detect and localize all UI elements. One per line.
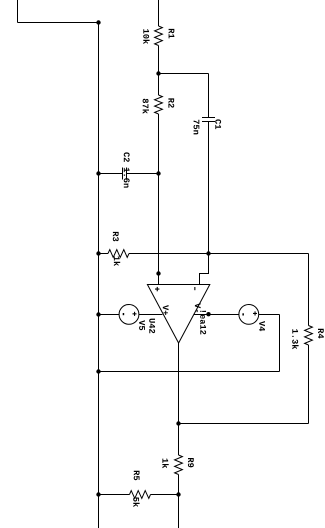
wire feedback horizontal — [179, 423, 309, 425]
label opamp model !ea12 — [200, 311, 206, 335]
node R1/R2/C1 junction — [156, 71, 160, 75]
wire input stub vertical — [17, 0, 19, 23]
label C2 value 1.6n — [124, 168, 130, 188]
resistor R9 — [175, 455, 183, 475]
resistor R5 — [130, 491, 151, 499]
source V5 circle — [119, 305, 139, 325]
node left-bus top junction — [96, 20, 100, 24]
label V5 name — [139, 320, 145, 330]
node R9/R5 junction — [176, 492, 180, 496]
source V5 minus mark — [123, 313, 125, 315]
resistor R1 — [155, 26, 163, 46]
source V4 circle — [239, 305, 259, 325]
wire V5 left lead — [99, 314, 120, 316]
label R4 name — [318, 329, 324, 339]
label C1 value 75n — [194, 120, 200, 135]
op-amp minus input mark — [194, 287, 195, 290]
label R1 value 10k — [143, 29, 149, 44]
label R5 value 5k — [133, 497, 139, 507]
wire C1 branch horizontal — [159, 73, 209, 75]
node minus-net junction — [206, 312, 210, 316]
wire R9 bottom lead — [178, 475, 180, 528]
source V4 plus mark — [253, 311, 257, 315]
label R4 value 1.3k — [292, 329, 298, 349]
capacitor C2 — [123, 168, 127, 180]
wire V4 drop vertical — [279, 315, 281, 372]
label C2 name — [124, 152, 130, 162]
label R2 name — [168, 98, 174, 107]
label R2 value 87k — [143, 99, 149, 114]
wire R5 right lead — [151, 494, 179, 496]
node return left junction — [96, 369, 100, 373]
resistor R2 — [155, 95, 163, 114]
source V5 plus mark — [133, 312, 137, 316]
label R3 value 1k — [114, 256, 120, 266]
wire R4 bottom lead — [308, 345, 310, 424]
node C2 right junction — [156, 171, 160, 175]
wire opamp minus pin step — [200, 254, 209, 285]
capacitor C1 — [202, 118, 215, 122]
node V5 left junction — [96, 312, 100, 316]
source V4 minus mark — [242, 313, 244, 315]
label opamp name U42 — [149, 319, 155, 334]
label R5 name — [134, 471, 140, 480]
label V4 name — [259, 321, 265, 331]
wire C1 top lead — [208, 74, 210, 118]
resistor R4 — [305, 326, 313, 346]
wire left bus vertical — [98, 23, 100, 528]
resistor R3 — [108, 250, 129, 258]
wire R3 right lead to R4 drop — [129, 253, 309, 255]
label C1 name — [215, 119, 221, 129]
label R1 name — [169, 29, 175, 38]
wire R4 top lead — [308, 254, 310, 326]
label R9 value 1k — [162, 459, 168, 469]
wire opamp output vertical — [178, 343, 180, 455]
node R5 left junction — [96, 492, 100, 496]
wire R1-R2 segment — [158, 46, 160, 96]
node opamp plus pin junction — [156, 271, 160, 275]
wire main vertical to opamp plus — [158, 174, 160, 285]
wire R1 top lead — [158, 0, 160, 26]
wire opamp minus side to V4 — [194, 314, 239, 316]
op-amp U42 triangle — [147, 285, 209, 344]
op-amp plus input mark — [155, 287, 159, 291]
wire C2 right lead — [127, 173, 159, 175]
node R3 left junction — [96, 251, 100, 255]
node output/R4 junction — [176, 421, 180, 425]
label R3 name — [113, 232, 119, 241]
wire R2 bottom to C2 node — [158, 114, 160, 174]
label R9 name — [188, 458, 194, 467]
label opamp V- pin — [195, 303, 201, 312]
node C1/R3-net junction — [206, 251, 210, 255]
wire R3 left lead — [99, 253, 109, 255]
wire R5 left lead — [99, 494, 130, 496]
wire V5 to opamp plus input — [139, 314, 163, 316]
wire input stub horizontal — [18, 22, 99, 24]
wire C2 left lead — [99, 173, 123, 175]
wire C1 bottom lead down to R3 net — [208, 122, 210, 254]
wire V4 return horizontal — [99, 371, 280, 373]
wire V4 right lead — [259, 314, 280, 316]
node C2 left junction — [96, 171, 100, 175]
label opamp V+ pin — [163, 305, 169, 315]
